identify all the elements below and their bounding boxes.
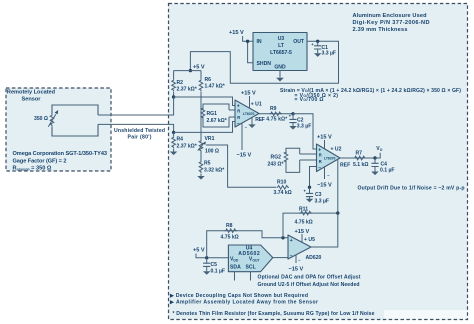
svg-text:RG2: RG2: [271, 155, 282, 161]
svg-text:SHDN: SHDN: [257, 61, 272, 67]
svg-text:R4: R4: [177, 137, 184, 143]
DAC U4 AD5602: [228, 245, 272, 272]
svg-text:R6: R6: [205, 77, 212, 83]
-15 V supply label U5: [295, 255, 297, 264]
svg-text:C3: C3: [315, 192, 322, 198]
wire R9 node to U2 plus input: [293, 114, 317, 149]
svg-text:4.75 kΩ: 4.75 kΩ: [221, 235, 239, 241]
svg-text:+ U1: + U1: [251, 102, 262, 108]
resistor R10: [277, 186, 289, 190]
svg-text:3.3 µF: 3.3 µF: [322, 50, 337, 56]
svg-text:3.32 kΩ*: 3.32 kΩ*: [204, 168, 224, 174]
svg-text:LT6370: LT6370: [243, 112, 255, 116]
svg-text:350 Ω: 350 Ω: [34, 116, 48, 122]
svg-text:AD620: AD620: [306, 255, 322, 261]
svg-text:2.39 mm Thickness: 2.39 mm Thickness: [353, 27, 408, 33]
svg-text:R: R: [319, 159, 322, 164]
capacitor C4 0.1uF: [374, 158, 376, 163]
trimmer VR1 100 ohm: [199, 140, 203, 152]
capacitor C5 0.1uF: [206, 258, 208, 263]
sensor body rect: [52, 105, 98, 136]
svg-text:+: +: [290, 238, 293, 244]
node R10/C3: [308, 186, 311, 189]
resistor R8: [207, 231, 288, 258]
node B: [172, 131, 175, 134]
svg-text:R: R: [319, 153, 322, 158]
REF pin U2: [337, 160, 339, 214]
wire sensor bottom to node B: [98, 124, 174, 132]
REF pin U1: [251, 118, 253, 125]
svg-text:−: −: [290, 254, 293, 260]
svg-text:SCL: SCL: [246, 265, 256, 271]
resistor R6: [200, 71, 202, 79]
svg-text:R10: R10: [277, 180, 287, 186]
svg-text:Output Drift Due to 1/f Noise: Output Drift Due to 1/f Noise = ~2 mV p-…: [358, 185, 465, 191]
capacitor C3 3.3uF: [309, 187, 311, 193]
Vo output stub: [375, 153, 380, 158]
strain gauge 350 ohm: [50, 114, 54, 126]
svg-text:C5: C5: [211, 262, 218, 268]
RG2 resistor box: [300, 154, 317, 160]
wire DAC out to U5 minus: [273, 257, 288, 259]
svg-text:VR1: VR1: [205, 136, 215, 142]
wire node A to U1 plus input: [174, 97, 235, 106]
svg-text:+15 V: +15 V: [229, 30, 244, 36]
sensor box fill: [6, 88, 111, 171]
op-amp U1 LT6370: [235, 100, 259, 127]
op-amp U2 LT6370: [317, 144, 341, 172]
svg-text:3.3 µF: 3.3 µF: [315, 198, 330, 204]
wire VR1 wiper to R10: [206, 145, 276, 187]
svg-text:100 Ω: 100 Ω: [205, 149, 219, 155]
svg-text:3.74 kΩ: 3.74 kΩ: [274, 190, 292, 196]
capacitor C2 3.3uF: [292, 114, 294, 120]
RG1 resistor box: [229, 110, 235, 117]
svg-text:Sensor: Sensor: [22, 96, 42, 102]
svg-text:Omega Corporation SGT-1/350-TY: Omega Corporation SGT-1/350-TY43: [13, 151, 108, 157]
wire +5V to DAC VDD: [196, 254, 228, 258]
svg-text:−: −: [318, 165, 321, 171]
svg-text:= VO/700 Ω: = VO/700 Ω: [295, 97, 324, 103]
svg-text:2.37 kΩ*: 2.37 kΩ*: [177, 87, 197, 93]
node C5/R8 junction: [205, 256, 208, 259]
svg-text:243 Ω*: 243 Ω*: [268, 162, 284, 168]
svg-text:R: R: [237, 109, 240, 114]
ground under U3 GND: [276, 78, 284, 82]
svg-text:LT6370: LT6370: [324, 157, 336, 161]
node +5V rail: [189, 69, 192, 72]
svg-text:Unshielded Twisted: Unshielded Twisted: [114, 128, 165, 134]
wire U3 OUT to C1 and corner: [190, 41, 338, 83]
node N2: [336, 211, 339, 214]
svg-text:* Denotes Thin Film Resistor (: * Denotes Thin Film Resistor (for Exampl…: [173, 311, 375, 317]
resistor R4: [173, 132, 175, 136]
svg-text:R: R: [237, 115, 240, 120]
svg-text:Remotely Located: Remotely Located: [7, 90, 56, 96]
node U3 IN junction: [246, 40, 249, 43]
node Vo: [373, 156, 376, 159]
resistor R9: [259, 113, 293, 115]
resistor R5: [200, 151, 202, 162]
svg-text:▶ Amplifier Assembly Located A: ▶ Amplifier Assembly Located Away from t…: [169, 300, 318, 306]
svg-text:SDA: SDA: [230, 265, 241, 271]
ground under C2: [289, 126, 296, 130]
wire U5 output to N2: [311, 213, 338, 247]
svg-text:5.1 kΩ: 5.1 kΩ: [353, 162, 368, 168]
svg-text:Pair (80'): Pair (80'): [128, 135, 152, 141]
svg-text:R7: R7: [356, 151, 363, 157]
resistor R2: [173, 71, 175, 79]
svg-text:4.75 kΩ: 4.75 kΩ: [295, 220, 313, 226]
svg-text:REF: REF: [255, 117, 264, 123]
wire U2 minus input to R10/C3 node: [310, 167, 317, 188]
svg-text:Ground U2-5 if Offset Adjust N: Ground U2-5 if Offset Adjust Not Needed: [258, 282, 360, 288]
svg-text:−: −: [237, 121, 240, 127]
svg-text:+15 V: +15 V: [295, 229, 310, 235]
svg-text:REF: REF: [340, 163, 350, 169]
svg-text:−15 V: −15 V: [317, 183, 332, 189]
svg-text:4.75 kΩ*: 4.75 kΩ*: [266, 117, 287, 123]
svg-text:U3: U3: [278, 36, 285, 42]
svg-text:+15 V: +15 V: [317, 135, 332, 141]
svg-text:0.1 µF: 0.1 µF: [211, 269, 226, 275]
svg-text:+5 V: +5 V: [193, 248, 205, 254]
node N1: [281, 236, 284, 239]
svg-text:Digi-Key P/N 377-2006-ND: Digi-Key P/N 377-2006-ND: [353, 20, 430, 26]
ground under C5: [203, 271, 210, 275]
svg-text:IN: IN: [257, 39, 262, 45]
ground under R5: [197, 176, 204, 180]
wire +15V elbow to IN: [243, 36, 253, 41]
svg-text:R2: R2: [177, 80, 184, 86]
wire +5V rail: [174, 70, 201, 72]
svg-text:Optional DAC and OPA for Offse: Optional DAC and OPA for Offset Adjust: [258, 274, 361, 280]
svg-text:+5 V: +5 V: [193, 65, 205, 71]
wire node A to sensor top: [98, 97, 174, 115]
node C1 junction: [316, 40, 319, 43]
svg-text:+15 V: +15 V: [241, 91, 256, 97]
svg-text:3.3 µF: 3.3 µF: [297, 124, 312, 130]
svg-text:R9: R9: [270, 106, 277, 112]
-15 V supply label U1: [241, 123, 243, 150]
svg-text:C4: C4: [381, 161, 388, 167]
svg-text:Aluminum Enclosure Used: Aluminum Enclosure Used: [353, 13, 428, 19]
svg-text:▶ Device Decoupling Caps Not S: ▶ Device Decoupling Caps Not Shown but R…: [169, 293, 308, 299]
SDA pin stub: [234, 272, 236, 281]
ground under R4: [170, 152, 177, 156]
svg-text:−15 V: −15 V: [289, 267, 304, 273]
node R9/C2: [291, 112, 294, 115]
-15 V supply label U2: [324, 167, 326, 180]
svg-text:R8: R8: [226, 223, 233, 229]
svg-text:R11: R11: [299, 207, 308, 213]
op-amp U5 AD620: [288, 235, 311, 259]
main enclosure dashed border: [169, 4, 468, 320]
capacitor C1 3.3uF: [317, 41, 319, 46]
node A: [172, 95, 175, 98]
svg-text:LT: LT: [278, 43, 285, 49]
SCL pin stub: [250, 272, 252, 281]
ground under C3: [306, 199, 313, 203]
wire node B to U1 minus input: [174, 122, 235, 133]
svg-text:R5: R5: [204, 161, 211, 167]
svg-text:OUT: OUT: [293, 39, 305, 45]
ground at U1 REF: [248, 124, 255, 128]
voltage reference U3 LT6657-5: [253, 33, 307, 71]
ground under C4: [371, 172, 378, 176]
sensor box dashed border: [6, 88, 111, 171]
svg-text:Gage Factor (GF) = 2: Gage Factor (GF) = 2: [13, 158, 67, 164]
svg-text:0.1 µF: 0.1 µF: [380, 168, 395, 174]
enclosure fill: [169, 4, 468, 320]
ground under C1: [314, 53, 321, 57]
svg-text:GND: GND: [274, 64, 286, 70]
svg-text:+ U2: + U2: [331, 147, 342, 153]
svg-text:RG1: RG1: [207, 111, 218, 117]
svg-text:LT6657-5: LT6657-5: [270, 50, 292, 56]
svg-text:−15 V: −15 V: [237, 153, 252, 159]
svg-text:1.47 kΩ*: 1.47 kΩ*: [205, 84, 225, 90]
wire IN junction down to SHDN: [248, 41, 253, 63]
svg-text:2.37 kΩ*: 2.37 kΩ*: [177, 144, 197, 150]
resistor R11: [283, 213, 338, 238]
svg-text:2.67 kΩ*: 2.67 kΩ*: [207, 118, 227, 124]
resistor R7: [340, 157, 375, 159]
svg-text:+ U5: + U5: [304, 237, 315, 243]
wire U3 GND stub: [279, 71, 281, 78]
